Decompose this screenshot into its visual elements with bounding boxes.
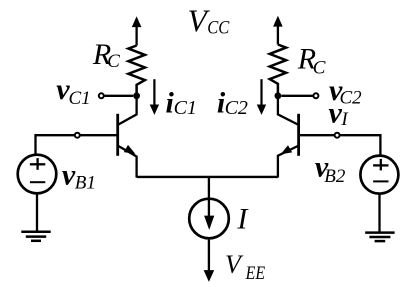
svg-text:C2: C2: [340, 87, 363, 108]
svg-text:V: V: [225, 250, 244, 279]
svg-text:C1: C1: [174, 97, 197, 119]
svg-text:B2: B2: [324, 166, 346, 187]
svg-text:C: C: [107, 51, 120, 72]
svg-text:C2: C2: [225, 97, 248, 119]
svg-text:I: I: [340, 109, 349, 130]
svg-text:C: C: [313, 58, 326, 79]
svg-text:B1: B1: [75, 172, 96, 193]
svg-text:I: I: [236, 203, 249, 236]
svg-text:CC: CC: [207, 17, 230, 38]
svg-text:v: v: [329, 97, 343, 130]
svg-text:EE: EE: [245, 262, 266, 284]
svg-text:C1: C1: [69, 88, 91, 109]
svg-text:v: v: [62, 158, 76, 191]
